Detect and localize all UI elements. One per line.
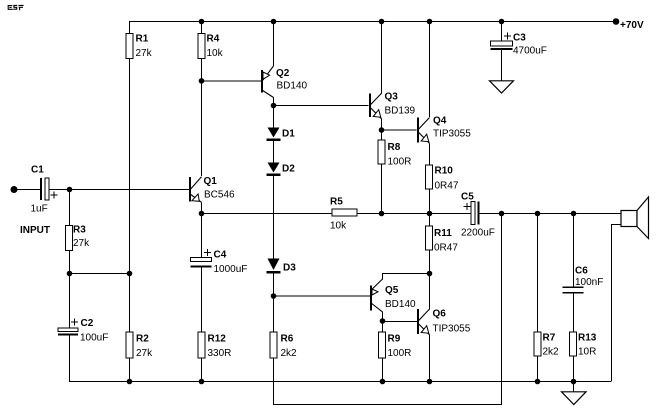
- svg-text:27k: 27k: [73, 238, 90, 249]
- svg-text:+70V: +70V: [620, 20, 644, 31]
- svg-text:D2: D2: [282, 164, 295, 175]
- svg-text:C2: C2: [81, 318, 94, 329]
- svg-text:R7: R7: [543, 333, 556, 344]
- svg-text:C1: C1: [31, 165, 44, 176]
- svg-text:TIP3055: TIP3055: [433, 129, 471, 140]
- svg-text:10k: 10k: [207, 48, 224, 59]
- svg-text:4700uF: 4700uF: [513, 46, 547, 57]
- svg-text:1000uF: 1000uF: [214, 264, 248, 275]
- svg-text:C5: C5: [461, 192, 474, 203]
- svg-text:2200uF: 2200uF: [461, 228, 495, 239]
- svg-text:2k2: 2k2: [543, 347, 560, 358]
- svg-text:R10: R10: [435, 166, 454, 177]
- svg-text:Q6: Q6: [433, 309, 447, 320]
- svg-text:R9: R9: [388, 334, 401, 345]
- svg-text:Q3: Q3: [385, 92, 399, 103]
- svg-text:BD140: BD140: [277, 81, 308, 92]
- svg-text:2k2: 2k2: [281, 348, 298, 359]
- svg-text:R5: R5: [330, 197, 343, 208]
- svg-text:R4: R4: [207, 34, 220, 45]
- svg-text:27k: 27k: [136, 48, 153, 59]
- svg-text:0R47: 0R47: [435, 181, 459, 192]
- svg-text:100R: 100R: [388, 157, 412, 168]
- svg-text:C4: C4: [214, 250, 227, 261]
- svg-text:10k: 10k: [330, 221, 347, 232]
- svg-text:C3: C3: [513, 33, 526, 44]
- svg-text:R3: R3: [73, 225, 86, 236]
- svg-text:R11: R11: [434, 228, 452, 239]
- svg-text:27k: 27k: [136, 348, 153, 359]
- svg-text:100R: 100R: [388, 348, 412, 359]
- svg-text:D3: D3: [283, 263, 296, 274]
- svg-text:Q5: Q5: [385, 285, 399, 296]
- svg-text:R8: R8: [388, 142, 401, 153]
- svg-text:330R: 330R: [208, 348, 232, 359]
- svg-text:R6: R6: [281, 334, 294, 345]
- svg-text:INPUT: INPUT: [20, 225, 50, 236]
- svg-text:Q1: Q1: [204, 176, 218, 187]
- svg-text:BC546: BC546: [204, 190, 235, 201]
- svg-text:D1: D1: [282, 129, 295, 140]
- svg-text:R12: R12: [208, 334, 227, 345]
- svg-text:100uF: 100uF: [80, 333, 108, 344]
- svg-text:100nF: 100nF: [575, 277, 603, 288]
- svg-text:C6: C6: [575, 266, 588, 277]
- svg-text:TIP3055: TIP3055: [433, 324, 471, 335]
- svg-text:10R: 10R: [578, 347, 596, 358]
- svg-text:Q2: Q2: [276, 68, 290, 79]
- svg-text:BD139: BD139: [385, 106, 416, 117]
- svg-text:0R47: 0R47: [434, 243, 458, 254]
- svg-text:1uF: 1uF: [31, 204, 48, 215]
- svg-text:R2: R2: [136, 334, 149, 345]
- svg-text:R1: R1: [136, 34, 149, 45]
- svg-text:BD140: BD140: [385, 299, 416, 310]
- svg-text:Q4: Q4: [433, 116, 447, 127]
- svg-text:R13: R13: [578, 333, 597, 344]
